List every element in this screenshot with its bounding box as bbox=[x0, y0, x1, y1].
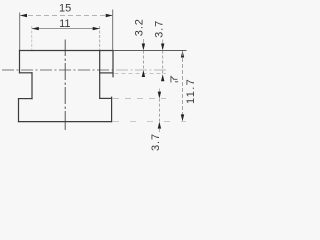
right edge top with hook bbox=[112, 51, 114, 77]
up arrow at step level bbox=[161, 74, 164, 81]
top edge extension to the right bbox=[113, 50, 187, 52]
stem above bbox=[162, 40, 164, 44]
dimension 3.7 top bbox=[153, 20, 165, 81]
svg-text:11: 11 bbox=[59, 18, 70, 30]
arrow left bbox=[32, 27, 39, 30]
left notch bottom bbox=[19, 98, 33, 100]
stem above bbox=[142, 39, 144, 44]
web right edge bbox=[99, 51, 101, 99]
up arrow at top bbox=[181, 51, 184, 58]
extension line left x=19.7 bbox=[19, 13, 21, 51]
top edge bbox=[20, 50, 114, 52]
down arrow at bottom bbox=[181, 114, 184, 121]
stem below bbox=[158, 129, 160, 132]
left edge upper bbox=[19, 51, 21, 73]
extension line right x=99.7 bbox=[99, 26, 101, 50]
down arrow at top edge bbox=[161, 44, 164, 51]
stem above bbox=[158, 89, 160, 92]
bottom flange right edge bbox=[111, 97, 113, 121]
extension line right x=112.7 bbox=[112, 10, 114, 51]
dimension 11 bbox=[32, 18, 100, 50]
svg-text:3.7: 3.7 bbox=[150, 133, 162, 151]
vertical centerline bbox=[64, 40, 66, 131]
up arrow at bottom edge bbox=[158, 122, 161, 129]
extension line left x=31.8 bbox=[31, 26, 33, 50]
dimension line 15 bbox=[20, 15, 113, 17]
dimension 3.7 bottom bbox=[150, 89, 162, 152]
left step bbox=[20, 72, 33, 74]
svg-text:3.2: 3.2 bbox=[134, 18, 146, 36]
horizontal centerline right extension bbox=[113, 69, 167, 71]
horizontal centerline bbox=[2, 69, 113, 71]
dimension 15 bbox=[20, 3, 113, 51]
svg-text:15: 15 bbox=[59, 3, 71, 15]
dimension line 11 bbox=[32, 28, 100, 30]
extension line y=73.6 (3.7 top reference) bbox=[115, 73, 167, 75]
arrow right bbox=[93, 27, 100, 30]
down arrow at step bbox=[158, 92, 161, 99]
arrow right bbox=[106, 14, 113, 17]
left edge lower bbox=[18, 99, 20, 122]
flange underside right bbox=[100, 72, 113, 74]
extension line y=98.6 (bottom step reference) bbox=[113, 98, 166, 100]
svg-text:3.7: 3.7 bbox=[153, 20, 165, 38]
bottom edge bbox=[19, 121, 112, 123]
web left edge bbox=[31, 73, 33, 99]
dim line between bbox=[158, 99, 160, 122]
small h-mark glyph right of profile bbox=[171, 76, 178, 83]
right step bbox=[100, 97, 112, 99]
up arrow at centerline bbox=[142, 70, 145, 77]
dimension 3.2 bbox=[134, 18, 146, 77]
profile outline bbox=[19, 51, 114, 122]
dim line bbox=[182, 52, 184, 120]
dimension 11.7 bbox=[181, 51, 197, 122]
arrow left bbox=[20, 14, 27, 17]
extension line y=121.6 (bottom edge reference) bbox=[113, 121, 186, 123]
dim line between bbox=[142, 51, 144, 71]
down arrow at top edge bbox=[142, 44, 145, 51]
svg-text:11.7: 11.7 bbox=[185, 78, 197, 104]
dim line between bbox=[162, 51, 164, 75]
